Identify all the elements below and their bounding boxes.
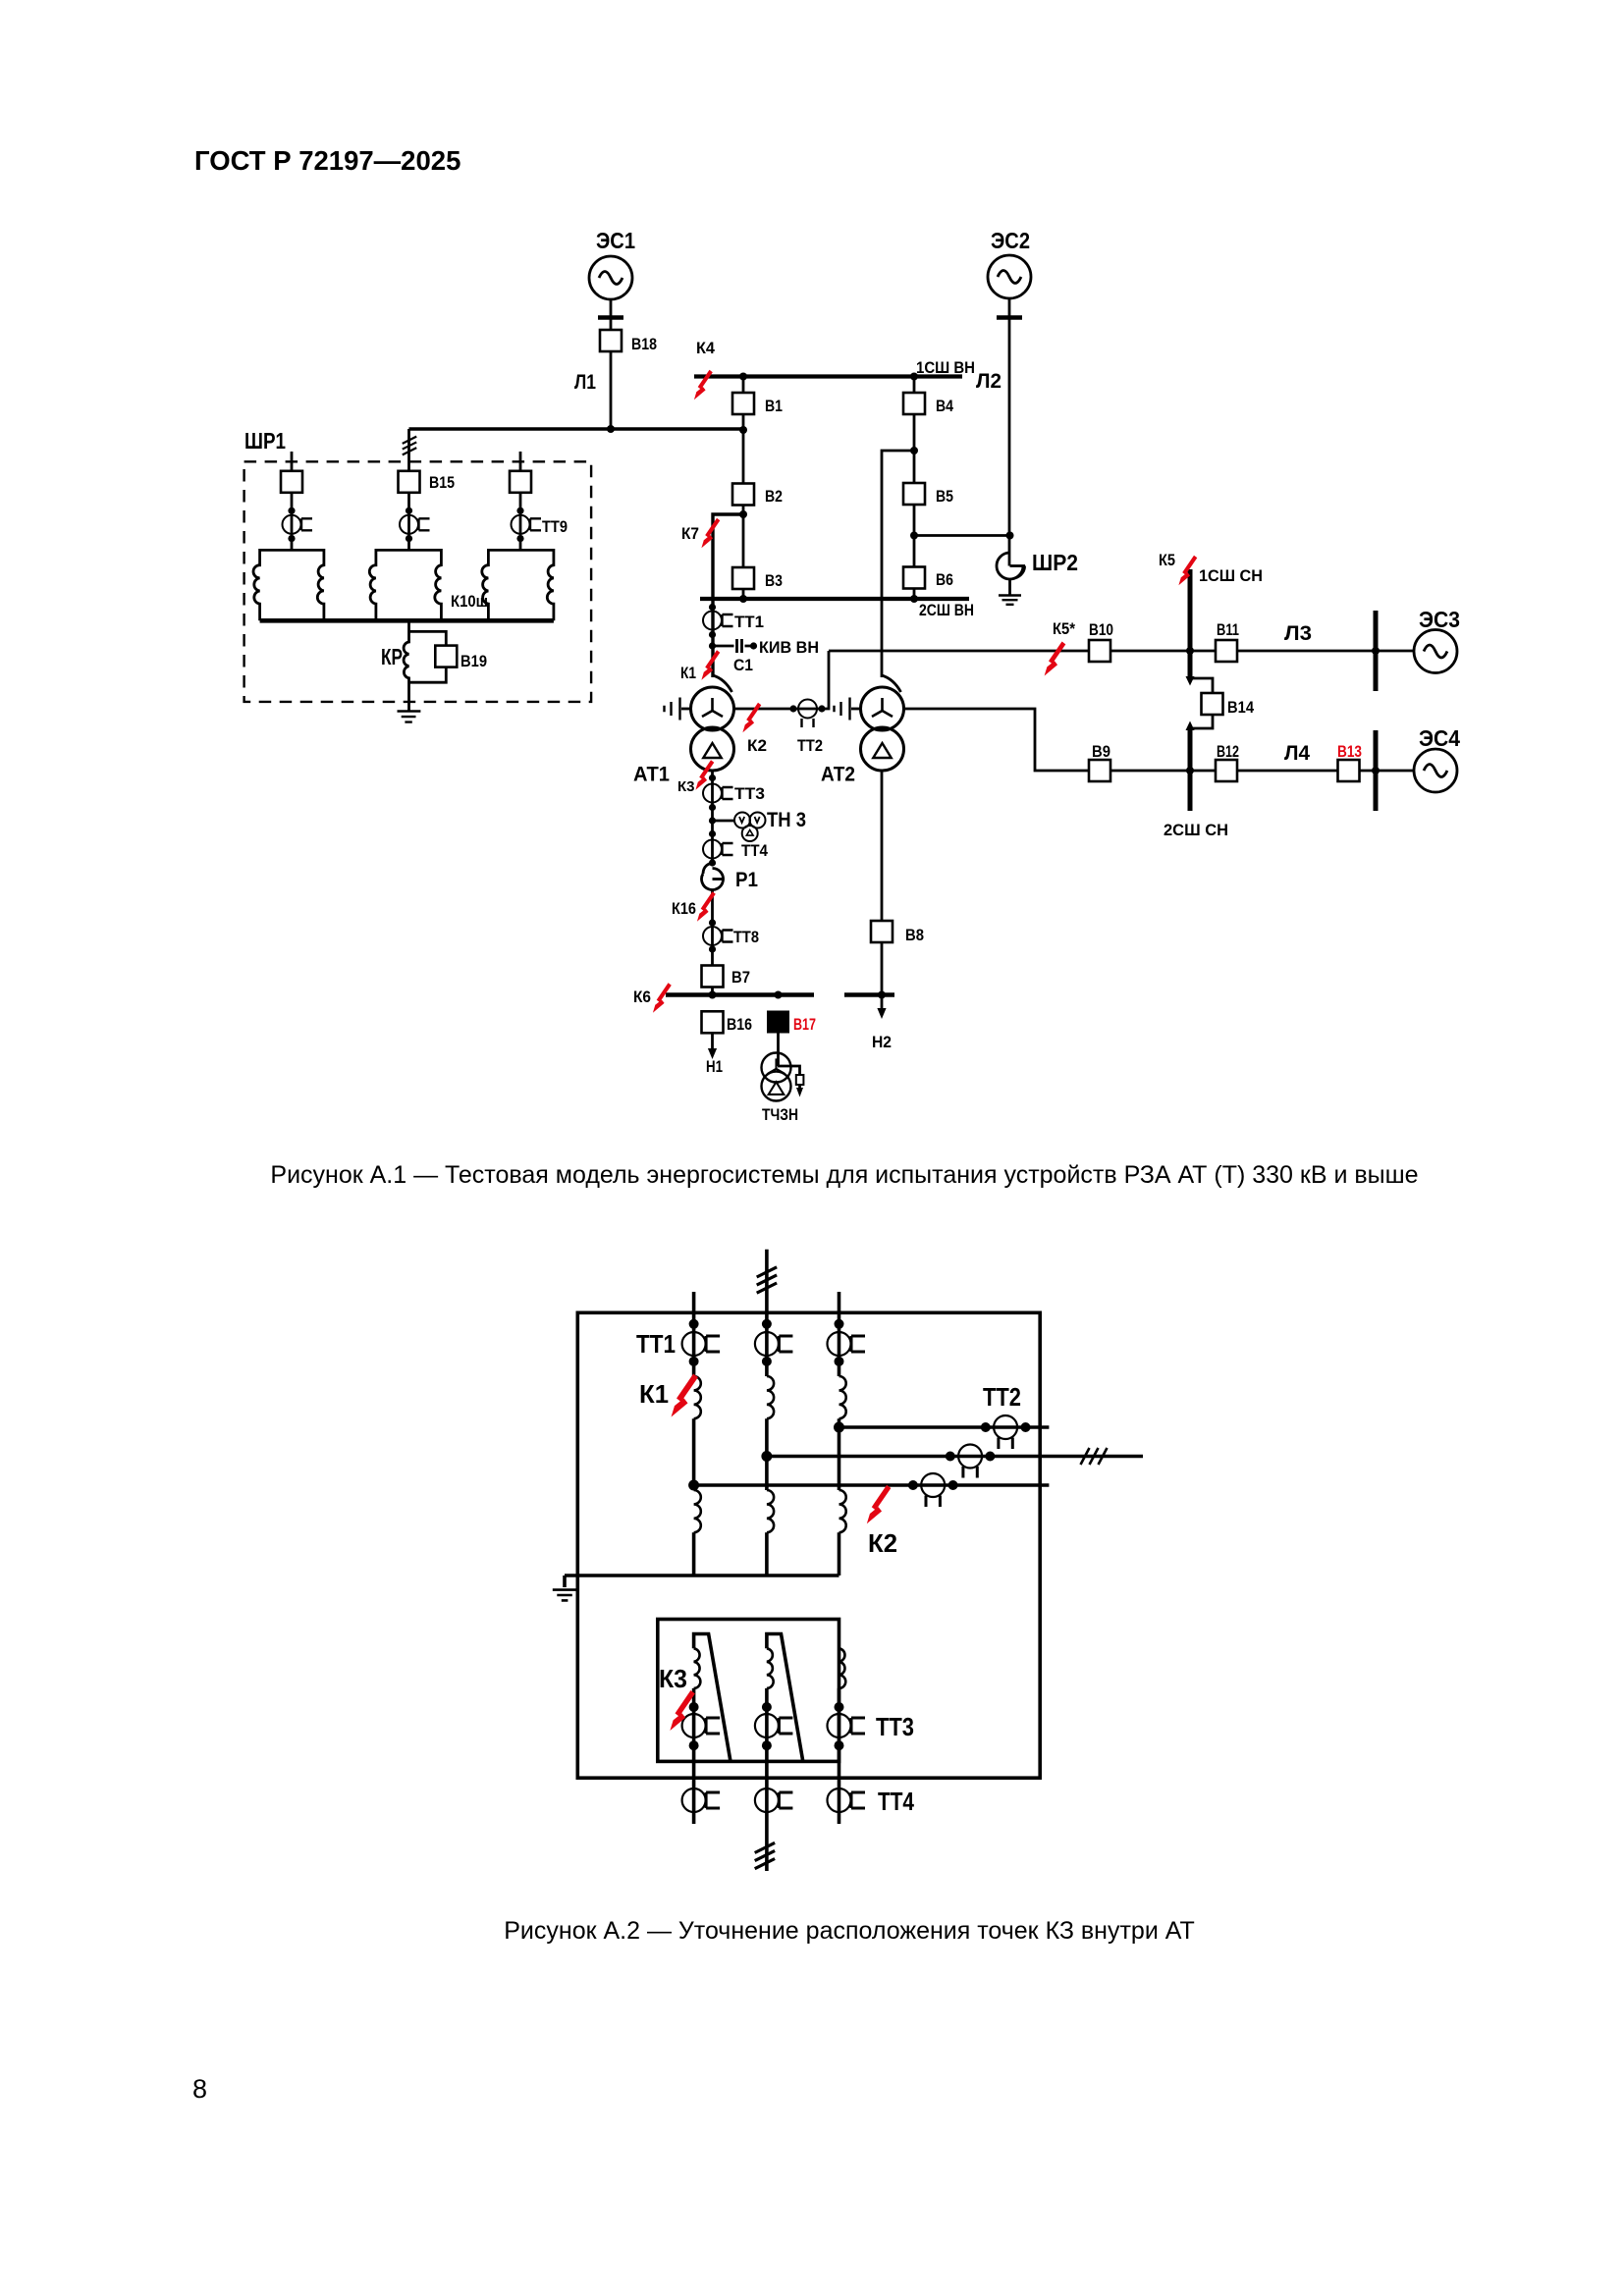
svg-text:ЭС2: ЭС2 (991, 228, 1030, 253)
svg-text:Л4: Л4 (1284, 742, 1310, 765)
svg-text:Н2: Н2 (872, 1033, 892, 1051)
svg-text:Р1: Р1 (735, 869, 758, 891)
svg-text:К1: К1 (639, 1379, 669, 1409)
svg-text:ЭС3: ЭС3 (1419, 607, 1460, 632)
svg-text:ГОСТ Р 72197—2025: ГОСТ Р 72197—2025 (194, 145, 460, 176)
svg-text:ТТ4: ТТ4 (878, 1787, 914, 1816)
svg-text:ТТ9: ТТ9 (542, 517, 568, 536)
svg-text:К7: К7 (681, 524, 699, 543)
svg-text:В4: В4 (936, 397, 953, 415)
svg-text:В6: В6 (936, 570, 953, 589)
svg-text:В10: В10 (1089, 620, 1113, 639)
svg-text:1СШ СН: 1СШ СН (1199, 566, 1263, 585)
svg-text:В7: В7 (731, 968, 750, 987)
svg-text:ТТ2: ТТ2 (983, 1382, 1021, 1412)
svg-text:ШР1: ШР1 (244, 428, 286, 454)
svg-text:В19: В19 (460, 652, 487, 670)
svg-text:2СШ ВН: 2СШ ВН (919, 601, 974, 619)
svg-text:В11: В11 (1217, 620, 1239, 639)
svg-text:К2: К2 (747, 736, 767, 755)
svg-text:В9: В9 (1092, 742, 1110, 761)
svg-text:В14: В14 (1227, 698, 1254, 717)
svg-text:АТ2: АТ2 (821, 763, 855, 786)
svg-text:С1: С1 (733, 656, 753, 674)
svg-text:Л2: Л2 (976, 370, 1001, 393)
svg-text:ТТ1: ТТ1 (636, 1329, 676, 1359)
svg-text:ЭС4: ЭС4 (1419, 725, 1460, 751)
svg-text:В13: В13 (1337, 742, 1362, 761)
svg-text:К10ш: К10ш (451, 592, 488, 611)
svg-text:В3: В3 (765, 571, 783, 590)
svg-text:В12: В12 (1217, 742, 1239, 761)
svg-text:К5: К5 (1159, 551, 1175, 569)
svg-text:К5*: К5* (1053, 619, 1075, 638)
svg-text:ТТ4: ТТ4 (741, 841, 768, 860)
svg-text:В16: В16 (727, 1015, 752, 1034)
svg-text:Рисунок А.2 — Уточнение распол: Рисунок А.2 — Уточнение расположения точ… (504, 1917, 1195, 1945)
svg-text:Рисунок А.1 — Тестовая модель: Рисунок А.1 — Тестовая модель энергосист… (270, 1161, 1418, 1189)
svg-text:Н1: Н1 (706, 1057, 723, 1076)
svg-text:В1: В1 (765, 397, 783, 415)
svg-text:В5: В5 (936, 487, 953, 506)
svg-text:ТТ8: ТТ8 (733, 928, 759, 946)
svg-text:Л1: Л1 (574, 371, 596, 394)
svg-text:ТТ2: ТТ2 (797, 736, 823, 755)
svg-text:ТЧЗН: ТЧЗН (762, 1105, 798, 1124)
svg-text:В2: В2 (765, 487, 783, 506)
svg-text:К3: К3 (677, 778, 695, 795)
svg-text:Л3: Л3 (1284, 622, 1312, 645)
svg-text:АТ1: АТ1 (633, 763, 670, 786)
svg-text:К1: К1 (680, 664, 696, 682)
svg-text:ШР2: ШР2 (1032, 550, 1078, 575)
svg-text:КР: КР (381, 644, 403, 669)
svg-text:1СШ ВН: 1СШ ВН (916, 358, 975, 377)
svg-text:В18: В18 (631, 335, 657, 353)
svg-text:ТТ1: ТТ1 (734, 613, 764, 631)
svg-text:В17: В17 (793, 1015, 816, 1034)
svg-text:В15: В15 (429, 473, 455, 492)
svg-text:ТТ3: ТТ3 (876, 1712, 914, 1741)
svg-text:2СШ СН: 2СШ СН (1164, 821, 1228, 839)
svg-text:ЭС1: ЭС1 (596, 228, 635, 253)
svg-text:К4: К4 (696, 339, 716, 357)
svg-text:КИВ ВН: КИВ ВН (759, 638, 819, 657)
svg-text:К2: К2 (868, 1528, 897, 1558)
svg-text:8: 8 (192, 2074, 207, 2104)
svg-text:К6: К6 (633, 988, 651, 1006)
svg-text:ТТ3: ТТ3 (734, 784, 765, 803)
svg-text:ТН 3: ТН 3 (767, 809, 806, 831)
svg-text:В8: В8 (905, 926, 924, 944)
svg-text:К16: К16 (672, 899, 696, 918)
svg-text:К3: К3 (659, 1664, 687, 1693)
